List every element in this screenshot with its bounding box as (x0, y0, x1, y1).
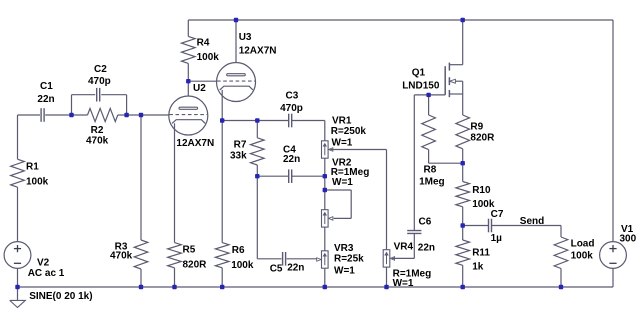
svg-text:Q1: Q1 (412, 68, 426, 79)
svg-text:R=250k: R=250k (331, 126, 367, 137)
svg-text:R7: R7 (234, 139, 247, 150)
svg-text:R5: R5 (183, 244, 196, 255)
svg-text:V2: V2 (37, 258, 50, 269)
svg-text:VR4: VR4 (394, 242, 414, 253)
svg-text:1Meg: 1Meg (419, 176, 445, 187)
svg-text:820R: 820R (470, 133, 495, 144)
svg-text:22n: 22n (418, 243, 435, 254)
svg-text:C1: C1 (40, 81, 53, 92)
svg-text:Send: Send (520, 216, 544, 227)
svg-text:SINE(0 20 1k): SINE(0 20 1k) (29, 291, 92, 302)
svg-text:22n: 22n (37, 94, 54, 105)
svg-text:470p: 470p (88, 76, 111, 87)
svg-text:470k: 470k (110, 251, 133, 262)
svg-text:100k: 100k (26, 177, 49, 188)
svg-text:R1: R1 (26, 161, 39, 172)
svg-text:R2: R2 (91, 125, 104, 136)
svg-text:12AX7N: 12AX7N (176, 138, 214, 149)
svg-text:AC ac 1: AC ac 1 (28, 268, 65, 279)
svg-text:12AX7N: 12AX7N (239, 46, 277, 57)
svg-text:R6: R6 (232, 245, 245, 256)
svg-text:W=1: W=1 (334, 265, 355, 276)
svg-text:100k: 100k (231, 260, 254, 271)
svg-text:W=1: W=1 (332, 177, 353, 188)
svg-text:W=1: W=1 (332, 138, 353, 149)
svg-text:C6: C6 (419, 216, 432, 227)
svg-text:C5: C5 (270, 263, 283, 274)
svg-text:R9: R9 (470, 122, 483, 133)
svg-text:33k: 33k (230, 151, 247, 162)
svg-text:300: 300 (620, 233, 637, 244)
svg-text:R4: R4 (197, 37, 210, 48)
svg-text:R11: R11 (472, 247, 490, 258)
svg-text:470p: 470p (280, 103, 303, 114)
svg-text:R10: R10 (472, 185, 491, 196)
svg-text:22n: 22n (283, 154, 300, 165)
svg-text:1µ: 1µ (491, 233, 503, 244)
svg-text:100k: 100k (571, 250, 594, 261)
svg-text:R8: R8 (424, 164, 437, 175)
svg-text:LND150: LND150 (402, 81, 440, 92)
svg-text:W=1: W=1 (393, 278, 414, 289)
svg-text:U2: U2 (193, 83, 206, 94)
svg-text:C3: C3 (286, 91, 299, 102)
svg-text:Load: Load (571, 239, 595, 250)
svg-text:U3: U3 (239, 32, 252, 43)
svg-text:100k: 100k (197, 52, 220, 63)
svg-text:1k: 1k (472, 262, 484, 273)
svg-text:22n: 22n (287, 263, 304, 274)
svg-text:R=25k: R=25k (334, 254, 364, 265)
svg-text:VR3: VR3 (334, 243, 354, 254)
svg-text:470k: 470k (86, 136, 109, 147)
svg-text:C7: C7 (491, 209, 504, 220)
svg-text:C2: C2 (94, 64, 107, 75)
svg-text:820R: 820R (183, 260, 208, 271)
